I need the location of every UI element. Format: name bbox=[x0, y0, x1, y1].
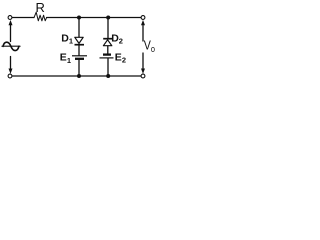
wire top rail right segment bbox=[47, 17, 142, 19]
AC source sine wave bbox=[3, 42, 19, 50]
wire D1 branch upper bbox=[78, 18, 80, 37]
wire left branch upper bbox=[10, 25, 12, 42]
battery E2 positive plate bbox=[100, 57, 114, 59]
battery E1 negative plate bbox=[75, 58, 84, 60]
battery E2 negative plate bbox=[103, 53, 111, 55]
node dot bottom D2 bbox=[106, 74, 110, 78]
node dot top D1 bbox=[77, 16, 81, 20]
arrow up right bbox=[141, 20, 145, 25]
arrow down left bbox=[9, 69, 13, 74]
svg-text:R: R bbox=[36, 0, 45, 15]
svg-text:D2: D2 bbox=[111, 32, 123, 45]
diode D2 cathode bar bbox=[103, 38, 112, 40]
node dot top D2 bbox=[106, 16, 110, 20]
resistor R bbox=[34, 12, 47, 21]
wire D2 branch lower bbox=[107, 59, 109, 76]
wire Vo branch lower bbox=[142, 53, 144, 69]
terminal circle bottom left bbox=[8, 74, 12, 78]
svg-text:Vo: Vo bbox=[144, 38, 156, 54]
wire Vo branch upper bbox=[142, 26, 144, 42]
terminal circle bottom right bbox=[141, 74, 145, 78]
svg-text:E2: E2 bbox=[115, 51, 126, 64]
arrow down right bbox=[141, 69, 145, 74]
wire left branch lower bbox=[10, 57, 12, 70]
diode D1 cathode bar bbox=[75, 44, 85, 46]
svg-text:D1: D1 bbox=[61, 32, 73, 45]
diode D1 triangle bbox=[75, 37, 83, 43]
diode D2 triangle bbox=[103, 40, 111, 46]
wire D2 branch upper bbox=[107, 18, 109, 38]
wire bottom rail bbox=[13, 75, 142, 77]
wire top rail left segment bbox=[13, 17, 34, 19]
AC source sine baseline bbox=[2, 45, 20, 47]
svg-text:E1: E1 bbox=[60, 52, 71, 65]
terminal circle top right bbox=[141, 16, 145, 20]
wire D2 branch middle bbox=[107, 46, 109, 54]
battery E1 positive plate bbox=[72, 55, 87, 57]
node dot bottom D1 bbox=[77, 74, 81, 78]
arrow up left bbox=[9, 20, 13, 25]
wire D1 branch lower bbox=[78, 60, 80, 76]
wire D1 branch middle bbox=[78, 45, 80, 55]
terminal circle top left bbox=[8, 16, 12, 20]
